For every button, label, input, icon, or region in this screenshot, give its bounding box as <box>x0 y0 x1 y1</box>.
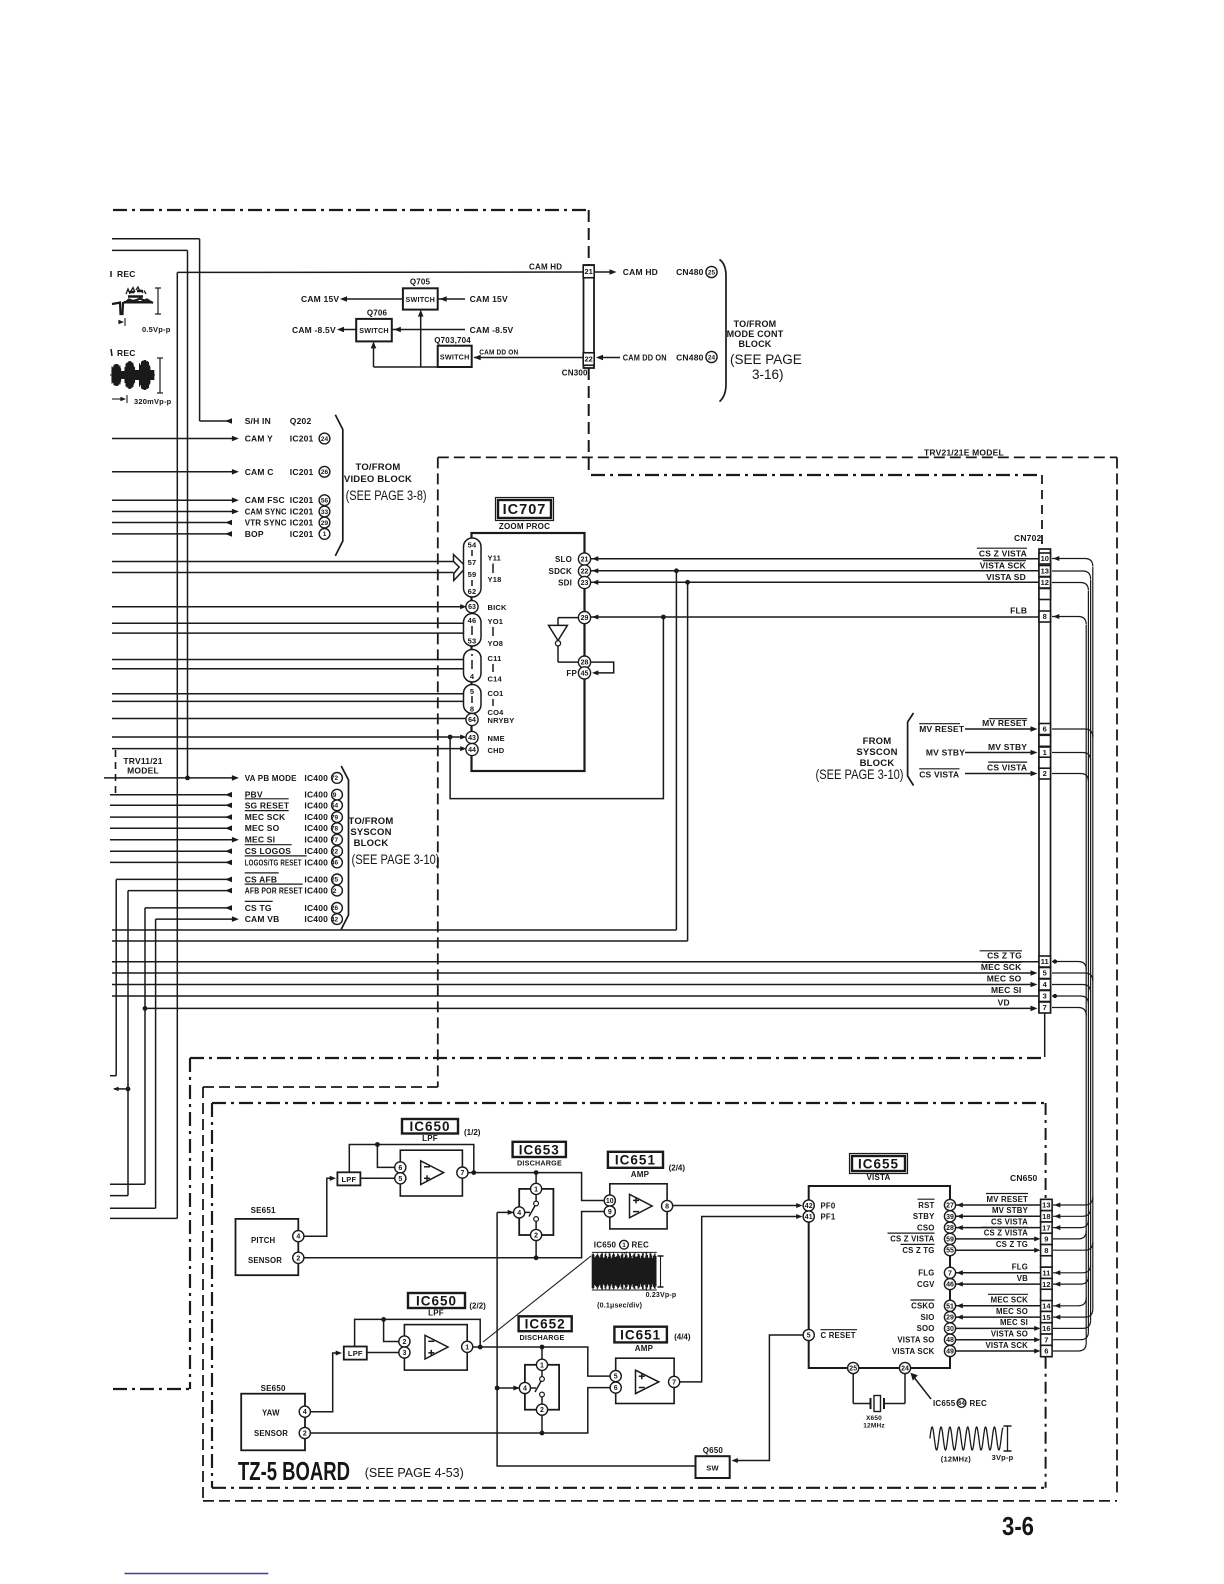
svg-text:VISTA SD: VISTA SD <box>986 572 1026 582</box>
svg-text:IC201: IC201 <box>290 507 314 517</box>
svg-text:MEC SO: MEC SO <box>245 823 280 833</box>
svg-text:CS Z TG: CS Z TG <box>996 1240 1028 1249</box>
svg-text:16: 16 <box>1042 1324 1050 1333</box>
wire: line to S/H corner y238.7 <box>112 238 200 240</box>
node: IC653 switch box <box>519 1189 553 1235</box>
wire: VTR SYNC signal line <box>112 522 232 524</box>
svg-text:Q705: Q705 <box>410 278 431 287</box>
svg-text:MV STBY: MV STBY <box>926 748 965 758</box>
svg-text:TRV21/21E MODEL: TRV21/21E MODEL <box>924 447 1004 457</box>
svg-text:SYSCON: SYSCON <box>350 827 391 838</box>
svg-text:44: 44 <box>468 747 476 754</box>
node: IC707 pin 29 <box>578 612 590 624</box>
wire: CAM -8.5V input right <box>392 329 465 331</box>
svg-text:IC400: IC400 <box>304 812 328 822</box>
svg-text:7: 7 <box>460 1170 464 1177</box>
svg-text:57: 57 <box>468 558 477 567</box>
svg-text:S/H IN: S/H IN <box>245 416 271 426</box>
node: TZ-5 board dash-dot border right upper <box>1045 1103 1047 1199</box>
svg-text:8: 8 <box>470 705 474 714</box>
svg-text:CS VISTA: CS VISTA <box>919 769 959 779</box>
connector CN702 pin 13 <box>1039 566 1051 577</box>
wire: VISTA SO line IC655 to CN650 <box>956 1339 1037 1341</box>
svg-text:Q706: Q706 <box>367 309 388 318</box>
wire: AFB POR RESET drop vertical x128 <box>127 891 129 1196</box>
svg-text:IC400: IC400 <box>304 874 328 884</box>
svg-text:VTR SYNC: VTR SYNC <box>245 518 287 528</box>
op-amp U: IC651 4/4 triangle <box>636 1370 659 1393</box>
svg-text:LPF: LPF <box>342 1175 357 1184</box>
svg-text:39: 39 <box>946 1214 954 1221</box>
svg-text:4: 4 <box>296 1234 300 1241</box>
wire: pitch pin4 to LPF <box>304 1178 332 1236</box>
svg-text:CS TG: CS TG <box>245 903 272 913</box>
wire: CN702 pin 13 elbow to bus <box>1052 571 1091 579</box>
svg-text:IC400: IC400 <box>304 846 328 856</box>
svg-text:9: 9 <box>333 792 337 799</box>
node: IC650 pin 3 <box>399 1347 410 1358</box>
wire: FLB tap down to NME loop <box>450 617 663 799</box>
svg-text:VISTA SCK: VISTA SCK <box>985 1341 1028 1350</box>
node: TZ-5 board dash-dot border left <box>211 1103 213 1488</box>
svg-text:IC652: IC652 <box>525 1317 566 1332</box>
svg-text:SWITCH: SWITCH <box>359 326 389 335</box>
wire: vertical x187.5 to VA PB MODE row <box>187 250 189 778</box>
wire: switch control horizontal y367 <box>374 366 438 368</box>
wire: interconnect bus column B <box>1090 580 1092 1321</box>
wire: VA PB MODE signal line <box>104 777 236 779</box>
svg-text:10: 10 <box>606 1198 614 1205</box>
svg-text:TO/FROM: TO/FROM <box>348 816 393 827</box>
node: IC655 pin 5 C RESET <box>803 1329 814 1340</box>
op-amp U: IC652 label box <box>519 1316 572 1331</box>
wire: pin 25 stub <box>852 1374 854 1404</box>
svg-text:29: 29 <box>581 615 589 622</box>
svg-text:13: 13 <box>1042 1201 1050 1210</box>
svg-text:49: 49 <box>946 1349 954 1356</box>
svg-text:CS VISTA: CS VISTA <box>991 1217 1028 1226</box>
node: IC653 pin 1 <box>535 1173 537 1184</box>
svg-text:IC201: IC201 <box>290 467 314 477</box>
svg-text:CS Z VISTA: CS Z VISTA <box>984 1229 1028 1238</box>
connector CN650 pin 18 <box>1041 1211 1053 1222</box>
node: bracket to syscon block <box>341 766 348 929</box>
svg-text:CAM HD: CAM HD <box>529 263 562 272</box>
connector CN650 pin 8 <box>1041 1245 1053 1256</box>
node: TRV21/21E MODEL dashed box left border <box>437 457 439 1087</box>
svg-text:2: 2 <box>534 1233 538 1240</box>
wire: CAM VB signal line <box>156 918 236 920</box>
node: IC651 pin 10 <box>604 1195 615 1206</box>
svg-text:7: 7 <box>948 1270 952 1277</box>
svg-text:SENSOR: SENSOR <box>254 1429 288 1438</box>
wire: CN650 row 2 elbow from bus <box>1053 1208 1091 1216</box>
svg-text:FROM: FROM <box>863 736 892 747</box>
svg-text:11: 11 <box>1042 1269 1050 1278</box>
svg-text:5: 5 <box>614 1374 618 1381</box>
svg-text:CN480: CN480 <box>676 267 704 277</box>
node: IC655 pin 42 PF0 <box>803 1200 814 1211</box>
wire: feedback into pin 6 <box>377 1145 394 1168</box>
svg-text:REC: REC <box>970 1399 988 1408</box>
svg-text:64: 64 <box>958 1401 965 1407</box>
op-amp U: IC653 label box <box>513 1142 566 1157</box>
wire: discharge common rail x497 <box>497 1211 513 1213</box>
svg-text:56: 56 <box>321 498 329 505</box>
svg-text:IC650: IC650 <box>409 1119 450 1134</box>
svg-text:CS Z VISTA: CS Z VISTA <box>979 548 1027 558</box>
wire: Y11 input line <box>112 561 454 563</box>
node: TZ-5 board dash-dot border top <box>212 1102 1046 1104</box>
wire: CN702 pin 2 elbow to bus <box>1052 774 1088 782</box>
svg-text:SLO: SLO <box>555 555 572 564</box>
wire: CN650 row 8 elbow from bus <box>1053 1298 1086 1306</box>
svg-text:CS Z TG: CS Z TG <box>902 1246 934 1255</box>
svg-text:CAM DD ON: CAM DD ON <box>623 353 667 363</box>
svg-text:23: 23 <box>581 580 589 587</box>
wire: CAM HD rail bottom stub <box>110 1217 177 1219</box>
op-amp U: IC655 label box <box>852 1156 905 1171</box>
svg-text:IC400: IC400 <box>304 903 328 913</box>
wire: PBV signal line <box>110 794 232 796</box>
node: bracket to mode cont block <box>720 260 727 402</box>
connector CN300 pin 22 <box>583 353 594 366</box>
svg-text:CN480: CN480 <box>676 353 704 363</box>
svg-text:MV STBY: MV STBY <box>988 742 1027 752</box>
waveform: chroma burst waveform 320mVp-p <box>110 358 163 403</box>
node: IC650 pin 7 <box>457 1167 468 1178</box>
svg-text:NRYBY: NRYBY <box>488 716 515 725</box>
svg-text:CS LOGOS: CS LOGOS <box>245 846 292 856</box>
svg-text:42: 42 <box>805 1203 813 1210</box>
wire: NRYBY line <box>112 718 466 720</box>
wire: CO4 input line <box>112 700 464 702</box>
wire: MV RESET line into CN702 pin 6 <box>965 728 1033 730</box>
node: IC707 pin 28 <box>578 656 590 668</box>
node: outer dashed border bottom y1501 <box>203 1500 1117 1502</box>
transistor Q706 switch box <box>356 319 392 342</box>
svg-text:(0.1μsec/div): (0.1μsec/div) <box>597 1303 642 1310</box>
svg-text:5: 5 <box>398 1176 402 1183</box>
wire: CN650 row 6 elbow from bus <box>1053 1265 1091 1273</box>
svg-text:Q703,704: Q703,704 <box>434 336 471 345</box>
svg-text:SE650: SE650 <box>261 1384 286 1393</box>
svg-text:46: 46 <box>331 860 339 867</box>
svg-text:30: 30 <box>946 1326 954 1333</box>
svg-text:CAM DD ON: CAM DD ON <box>479 348 518 357</box>
svg-text:(4/4): (4/4) <box>674 1333 691 1342</box>
wire: pin 24 stub <box>904 1374 906 1404</box>
svg-text:IC400: IC400 <box>304 823 328 833</box>
svg-text:SIO: SIO <box>920 1313 934 1322</box>
wire: CAM -8.5V output left <box>341 329 356 331</box>
svg-text:4: 4 <box>517 1210 521 1217</box>
op-amp U: IC650 label box <box>402 1119 458 1134</box>
node: TRV21/21E MODEL dashed box right border <box>1116 457 1118 1497</box>
wire: S/H IN signal line <box>200 420 232 422</box>
wire: inverter output to pin 28 <box>557 646 559 662</box>
svg-text:5: 5 <box>807 1333 811 1340</box>
svg-text:Q202: Q202 <box>290 416 312 426</box>
wire: IC650 out to IC651 pin 10 <box>468 1173 604 1201</box>
node: IC652 switch box <box>525 1365 559 1410</box>
wire: CAM 15V output left <box>344 298 403 300</box>
wire: leader line to IC650 2/2 output <box>483 1256 591 1342</box>
svg-text:ZOOM PROC: ZOOM PROC <box>499 522 550 531</box>
svg-text:SW: SW <box>706 1464 719 1473</box>
svg-text:CS Z TG: CS Z TG <box>987 951 1022 961</box>
svg-text:46: 46 <box>946 1282 954 1289</box>
wire: CAM VB drop vertical x156 <box>155 919 157 1208</box>
svg-text:0.5Vp-p: 0.5Vp-p <box>142 325 171 334</box>
svg-text:MEC SI: MEC SI <box>1000 1318 1028 1327</box>
node: IC707 pin group 54-62 <box>464 538 482 597</box>
op-amp U: IC655 block outline <box>809 1186 950 1368</box>
wire: NME line <box>112 736 463 738</box>
svg-text:2: 2 <box>303 1431 307 1438</box>
node: SE651 pin 4 <box>293 1231 304 1242</box>
node: dashed border jog y1087 <box>203 1086 438 1088</box>
wire: BOP signal line <box>112 533 232 535</box>
svg-text:VISTA SCK: VISTA SCK <box>892 1347 935 1356</box>
svg-text:BLOCK: BLOCK <box>739 339 772 349</box>
svg-text:LPF: LPF <box>422 1134 438 1143</box>
op-amp U: IC651 4/4 label box <box>614 1327 667 1343</box>
svg-text:25: 25 <box>849 1366 857 1373</box>
wire: CAM DD ON into pin 22 <box>598 357 620 359</box>
svg-text:VB: VB <box>1017 1274 1028 1283</box>
svg-text:6: 6 <box>1044 1347 1048 1356</box>
connector CN650 pin 15 <box>1041 1311 1053 1322</box>
svg-text:53: 53 <box>468 637 477 646</box>
svg-text:21: 21 <box>585 267 593 276</box>
svg-text:IC655: IC655 <box>933 1399 956 1408</box>
node: IC655 pin 25 <box>848 1362 859 1373</box>
svg-text:RST: RST <box>918 1201 934 1210</box>
svg-text:FLB: FLB <box>1010 606 1027 616</box>
svg-text:Y11: Y11 <box>488 554 502 563</box>
svg-text:CHD: CHD <box>488 746 505 755</box>
node: IC652 pin 1 <box>541 1347 543 1360</box>
node: IC650 pin 2 <box>399 1336 410 1347</box>
svg-text:64: 64 <box>468 717 476 724</box>
svg-text:(2/2): (2/2) <box>469 1302 486 1311</box>
svg-text:13: 13 <box>1041 567 1049 576</box>
connector CN650 pin 6 <box>1041 1345 1053 1356</box>
svg-text:4: 4 <box>303 1409 307 1416</box>
svg-text:0.23Vp-p: 0.23Vp-p <box>646 1292 677 1299</box>
node: IC653 pin 4 <box>514 1207 525 1218</box>
svg-text:VA PB MODE: VA PB MODE <box>245 773 297 783</box>
svg-text:78: 78 <box>331 826 339 833</box>
svg-text:(SEE PAGE 3-10): (SEE PAGE 3-10) <box>352 852 440 867</box>
wire: CN702 pin 11 elbow to bus <box>1052 962 1086 970</box>
svg-text:BOP: BOP <box>245 529 264 539</box>
svg-text:CSKO: CSKO <box>911 1302 934 1311</box>
node: IC653 switch contacts <box>534 1201 539 1206</box>
wire: CAM SYNC signal line <box>112 511 236 513</box>
svg-text:SWITCH: SWITCH <box>406 295 436 304</box>
svg-text:DISCHARGE: DISCHARGE <box>517 1159 562 1168</box>
node: IC652 pin 4 <box>519 1382 530 1393</box>
svg-text:MEC SI: MEC SI <box>245 835 275 845</box>
connector CN702 pin 3 <box>1039 991 1051 1002</box>
node: IC651 pin 9 <box>604 1206 615 1217</box>
capacitor X650 crystal <box>870 1398 872 1409</box>
svg-text:62: 62 <box>468 587 477 596</box>
svg-text:IC707: IC707 <box>503 502 547 518</box>
wire: CS LOGOS signal line <box>110 850 232 852</box>
wire: MEC SCK line IC655 to CN650 <box>956 1305 1041 1307</box>
connector CN650 pin 12 <box>1041 1278 1053 1289</box>
svg-text:CS Z VISTA: CS Z VISTA <box>890 1235 934 1244</box>
svg-text:3-16): 3-16) <box>752 367 784 382</box>
svg-text:IC201: IC201 <box>290 518 314 528</box>
node: IC650 pin 1 <box>462 1341 473 1352</box>
svg-text:3-6: 3-6 <box>1002 1511 1034 1541</box>
wire: CAM HD line to CN300 pin 21 <box>177 271 583 273</box>
wire: CN650 row 4 elbow from bus <box>1053 1231 1086 1239</box>
wire: CS Z VISTA line IC655 to CN650 <box>956 1238 1037 1240</box>
svg-text:9: 9 <box>608 1209 612 1216</box>
wire: CS Z TG bus to CN702 pin 11 <box>112 961 1039 963</box>
svg-text:CAM -8.5V: CAM -8.5V <box>470 325 514 335</box>
svg-text:59: 59 <box>946 1236 954 1243</box>
svg-text:2: 2 <box>1043 769 1047 778</box>
wire: CN702 pin 7 elbow to bus <box>1052 1008 1086 1016</box>
connector CN650 pin 14 <box>1041 1300 1053 1311</box>
node: IC707 pin group 46-53 <box>464 614 482 647</box>
wire: CN650 row 10 elbow from bus <box>1053 1320 1091 1328</box>
wire: MEC SI line IC655 to CN650 <box>956 1327 1037 1329</box>
wire: CN702 pin 4 elbow to bus <box>1052 985 1091 993</box>
inverter N701 <box>549 625 568 640</box>
wire: MV STBY line IC655 to CN650 <box>956 1215 1041 1217</box>
node: SE651 pitch sensor box <box>236 1219 299 1275</box>
svg-text:CN300: CN300 <box>562 368 588 377</box>
svg-text:IC201: IC201 <box>290 529 314 539</box>
svg-text:TO/FROM: TO/FROM <box>355 462 400 473</box>
wire: dashed stem above CN702 <box>1041 475 1043 549</box>
connector CN702 pin 6 <box>1039 724 1051 735</box>
svg-text:2: 2 <box>402 1339 406 1346</box>
svg-text:24: 24 <box>901 1366 909 1373</box>
op-amp U: IC650 1/2 triangle <box>421 1161 444 1185</box>
svg-text:CGV: CGV <box>917 1280 935 1289</box>
svg-text:C11: C11 <box>488 654 502 663</box>
svg-text:VISTA: VISTA <box>867 1173 891 1182</box>
connector CN702 pin 1 <box>1039 747 1051 758</box>
svg-text:(1/2): (1/2) <box>464 1128 481 1137</box>
wire: IC650 feedback top <box>349 1145 474 1173</box>
wire: FLG line IC655 to CN650 <box>956 1272 1041 1274</box>
node: IC651 pin 8 <box>662 1200 673 1211</box>
svg-text:59: 59 <box>468 570 477 579</box>
wire: interconnect bus column A <box>1092 567 1094 1309</box>
svg-text:CN702: CN702 <box>1014 533 1042 543</box>
svg-text:7: 7 <box>1043 1003 1047 1012</box>
svg-text:22: 22 <box>585 355 593 364</box>
svg-text:45: 45 <box>581 670 589 677</box>
svg-text:TRV11/21: TRV11/21 <box>123 756 162 766</box>
node: TZ-5 board dash-dot border bottom <box>212 1487 1046 1489</box>
svg-text:SDI: SDI <box>558 579 572 588</box>
wire: CN650 row 5 elbow from bus <box>1053 1242 1093 1250</box>
node: IC652 switch contacts <box>540 1377 545 1382</box>
svg-text:4: 4 <box>523 1386 527 1393</box>
svg-text:IC651: IC651 <box>615 1153 656 1168</box>
svg-text:CAM SYNC: CAM SYNC <box>245 507 287 517</box>
wire: CN702 pin 6 elbow to bus <box>1052 729 1093 737</box>
svg-text:STBY: STBY <box>913 1212 935 1221</box>
svg-text:YO8: YO8 <box>488 639 504 648</box>
wire: MV RESET line IC655 to CN650 <box>956 1204 1041 1206</box>
svg-text:CAM Y: CAM Y <box>245 434 273 444</box>
svg-text:(12MHz): (12MHz) <box>941 1455 971 1464</box>
svg-text:CAM C: CAM C <box>245 467 274 477</box>
wire: CS VISTA line IC655 to CN650 <box>956 1227 1041 1229</box>
svg-text:1: 1 <box>1043 748 1047 757</box>
wire: FLB line pin29 to CN702 pin 8 <box>590 616 1039 618</box>
svg-text:C RESET: C RESET <box>821 1331 856 1340</box>
wire: interconnect bus column C <box>1087 591 1089 1332</box>
svg-text:REC: REC <box>632 1241 650 1250</box>
connector CN702 pin 12 <box>1039 577 1051 588</box>
svg-text:12: 12 <box>1041 578 1049 587</box>
wire: SG RESET signal line <box>110 804 232 806</box>
node: IC707 pin 63 BICK <box>466 601 478 613</box>
svg-text:14: 14 <box>1042 1302 1051 1311</box>
connector CN650 pin 9 <box>1041 1233 1053 1244</box>
wire: CAM C signal line <box>112 471 236 473</box>
wire: IC650 2/2 feedback top <box>355 1319 481 1347</box>
node: junction dot VA PB MODE rail <box>185 776 190 781</box>
svg-text:63: 63 <box>468 604 476 611</box>
svg-text:25: 25 <box>708 269 716 276</box>
connector CN300 body <box>584 265 595 368</box>
wire: VD bus to CN702 pin 7 <box>145 1007 1033 1009</box>
node: blue footer rule <box>125 1573 269 1575</box>
svg-text:FLG: FLG <box>1012 1263 1028 1272</box>
svg-text:SDCK: SDCK <box>549 567 572 576</box>
svg-text:72: 72 <box>331 775 339 782</box>
wire: CN650 row 7 elbow from bus <box>1053 1276 1088 1284</box>
wire: top-left block dash-dot border top <box>113 209 588 211</box>
svg-text:IC201: IC201 <box>290 495 314 505</box>
svg-text:CS VISTA: CS VISTA <box>987 763 1027 773</box>
connector CN650 body <box>1042 1199 1052 1356</box>
svg-text:AMP: AMP <box>631 1170 650 1179</box>
wire: CN702 pin 1 elbow to bus <box>1052 753 1091 761</box>
wire: CAM Y signal line <box>112 438 236 440</box>
svg-text:IC400: IC400 <box>304 773 328 783</box>
wire: SLO line to CN702 pin 10 <box>590 558 1039 560</box>
op-amp U: IC651 2/4 triangle <box>630 1194 653 1218</box>
svg-text:15: 15 <box>1042 1313 1050 1322</box>
svg-text:41: 41 <box>805 1214 813 1221</box>
svg-text:54: 54 <box>468 541 477 550</box>
svg-text:5: 5 <box>470 687 474 696</box>
wire: pitch pin2 line to IC651 pin9 <box>304 1212 604 1258</box>
svg-text:1: 1 <box>540 1362 544 1369</box>
wire: line to VA PB corner y250.4 <box>112 249 188 251</box>
svg-text:CN650: CN650 <box>1010 1173 1038 1183</box>
svg-text:C14: C14 <box>488 675 503 684</box>
wire: SDI bus y941 <box>112 940 688 942</box>
wire: LPF2 out to pin 3 <box>367 1352 399 1354</box>
wire: MEC SCK signal line <box>110 816 232 818</box>
wire: SDI riser x688 <box>687 582 689 941</box>
